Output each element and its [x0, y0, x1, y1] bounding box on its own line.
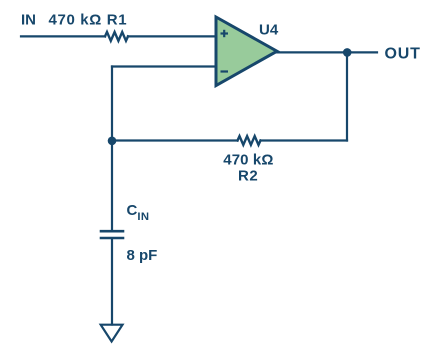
wire: op-amp inverting input to left node (horizontal) — [112, 65, 216, 67]
wire: R2 to output junction vertical run — [261, 139, 348, 141]
resistor R2 — [238, 136, 261, 145]
svg-text:R2: R2 — [238, 168, 258, 185]
resistor R1 — [105, 32, 128, 41]
wire: C_IN to ground — [111, 239, 113, 324]
svg-text:OUT: OUT — [385, 46, 421, 63]
wire: feedback node to resistor R2 — [112, 139, 238, 141]
ground — [101, 325, 123, 342]
wire: feedback node down to capacitor C_IN — [111, 141, 113, 231]
op-amp U4 body — [216, 17, 277, 86]
junction: inverting/feedback node — [108, 137, 117, 146]
svg-text:8 pF: 8 pF — [127, 247, 158, 264]
svg-text:CIN: CIN — [127, 202, 150, 223]
svg-text:IN: IN — [21, 12, 36, 29]
junction: output node — [343, 48, 352, 57]
wire: OUT junction to OUT label — [347, 51, 377, 53]
svg-text:U4: U4 — [259, 22, 279, 39]
wire: IN to resistor R1 — [21, 35, 105, 37]
svg-text:470 kΩ R1: 470 kΩ R1 — [49, 12, 128, 29]
op-amp U4 non-inverting input plus sign — [221, 30, 229, 37]
wire: inverting input down to feedback node — [111, 67, 113, 141]
wire: R1 to op-amp non-inverting input — [128, 35, 216, 37]
wire: op-amp output to OUT junction — [277, 51, 347, 53]
op-amp U4 inverting input minus sign — [221, 70, 229, 72]
capacitor C_IN top plate — [101, 230, 123, 233]
capacitor C_IN bottom plate — [101, 237, 123, 240]
wire: OUT junction down to feedback run — [346, 52, 348, 140]
svg-text:470 kΩ: 470 kΩ — [223, 152, 273, 169]
